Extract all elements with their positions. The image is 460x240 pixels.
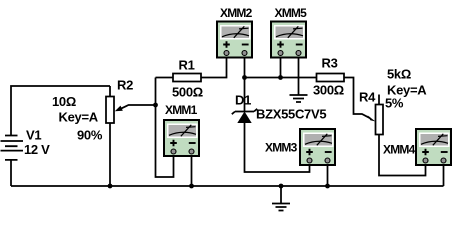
svg-text:300Ω: 300Ω — [313, 83, 344, 98]
ground G1 — [290, 95, 308, 102]
svg-text:R2: R2 — [117, 78, 133, 93]
svg-text:5kΩ: 5kΩ — [387, 67, 411, 82]
wire XMM4 minus to bus — [443, 166, 445, 186]
resistor R1 — [173, 74, 201, 82]
R2 wiper arrowhead — [115, 106, 123, 112]
svg-text:R3: R3 — [322, 56, 338, 71]
node junction XMM5 plus — [278, 75, 283, 80]
svg-text:V1: V1 — [26, 128, 41, 143]
wire R4 bottom to XMM4 plus — [379, 135, 426, 176]
node junction ground on bus — [279, 184, 284, 189]
multimeter XMM3 — [300, 129, 335, 165]
multimeter XMM1 — [164, 120, 199, 156]
node junction R2 bottom on bus — [108, 184, 113, 189]
wire left vertical bottom — [10, 160, 12, 186]
wire top horizontal from V1 to R2 — [11, 86, 110, 136]
node junction XMM3 minus on bus — [325, 184, 330, 189]
svg-text:XMM2: XMM2 — [220, 6, 253, 20]
resistor R3 — [317, 74, 345, 82]
wire R1 to XMM2 plus — [201, 59, 227, 78]
node junction wiper — [153, 103, 158, 108]
wire XMM2 minus down to zener — [244, 59, 246, 112]
multimeter XMM5 — [271, 22, 306, 58]
wire bottom bus — [11, 185, 444, 187]
svg-text:XMM4: XMM4 — [383, 143, 416, 157]
node junction XMM1 minus on bus — [189, 184, 194, 189]
svg-text:12 V: 12 V — [24, 142, 50, 157]
svg-text:500Ω: 500Ω — [172, 85, 203, 100]
wire zener anode to XMM3 plus — [245, 123, 310, 172]
svg-text:XMM5: XMM5 — [275, 6, 308, 20]
wire XMM5 minus to ground — [298, 59, 300, 96]
svg-text:5%: 5% — [385, 96, 404, 111]
svg-text:Key=A: Key=A — [59, 110, 99, 125]
wire XMM3 minus to bus — [327, 166, 329, 186]
multimeter XMM2 — [217, 22, 252, 58]
wire R1 left — [156, 77, 174, 79]
wire R2 wiper — [120, 105, 156, 109]
ground G2 — [272, 186, 290, 211]
multimeter XMM4 — [416, 129, 451, 165]
svg-text:BZX55C7V5: BZX55C7V5 — [256, 107, 326, 122]
wire R3 to R4 wiper — [344, 78, 370, 119]
wire XMM1 minus to bus — [191, 157, 193, 186]
zener diode D1 — [232, 109, 257, 123]
wire mid bus to R3 — [245, 77, 317, 79]
wire XMM5 plus to bus — [280, 59, 282, 78]
svg-text:D1: D1 — [235, 93, 251, 108]
battery V1 — [1, 136, 24, 160]
node junction XMM2 minus — [242, 75, 247, 80]
svg-text:XMM1: XMM1 — [165, 103, 198, 117]
svg-text:10Ω: 10Ω — [52, 94, 76, 109]
potentiometer R2 — [106, 86, 114, 186]
wire node to XMM1 plus — [156, 78, 174, 178]
R4 wiper arrowhead — [368, 115, 376, 121]
svg-text:XMM3: XMM3 — [265, 141, 298, 155]
potentiometer R4 — [376, 95, 384, 135]
svg-text:R1: R1 — [179, 58, 195, 73]
svg-text:R4: R4 — [359, 90, 376, 105]
svg-text:90%: 90% — [77, 128, 103, 143]
